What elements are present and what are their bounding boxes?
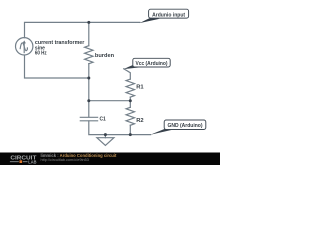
node dot source-burden bbox=[87, 77, 90, 80]
current source sine bbox=[20, 43, 27, 51]
wire source bottom to burden branch bbox=[25, 55, 89, 78]
resistor R2 bbox=[126, 107, 134, 125]
footer bar bbox=[0, 153, 220, 166]
resistor R1 bbox=[126, 79, 134, 97]
flag Ardunio input tail bbox=[139, 18, 159, 24]
svg-text:R1: R1 bbox=[136, 84, 144, 90]
wire mid horizontal node bbox=[89, 100, 131, 102]
footer logo LAB row bbox=[10, 159, 37, 165]
resistor burden bbox=[85, 46, 93, 64]
svg-text:http://circuitlab.com/c/e9tn53: http://circuitlab.com/c/e9tn53 bbox=[41, 158, 89, 162]
node dot burden bottom bbox=[87, 99, 90, 102]
flag GND (Arduino) bbox=[164, 120, 206, 130]
wire cap top stem bbox=[88, 101, 90, 117]
wire Vcc flag to R1 bbox=[124, 69, 131, 79]
ground bbox=[104, 135, 106, 138]
flag Ardunio input bbox=[149, 9, 189, 18]
flag Vcc (Arduino) tail bbox=[123, 65, 141, 69]
current source U1 circle bbox=[16, 38, 33, 55]
current source arrowhead bbox=[23, 40, 26, 43]
flag Vcc (Arduino) bbox=[133, 58, 170, 67]
wire burden top stem bbox=[88, 22, 90, 45]
wire R2 bottom stem bbox=[129, 125, 131, 134]
node dot divider mid bbox=[129, 99, 132, 102]
flag GND (Arduino) tail bbox=[150, 129, 172, 135]
wire top rail bbox=[25, 22, 140, 37]
wire cap bottom to ground rail bbox=[89, 121, 151, 135]
svg-text:GND (Arduino): GND (Arduino) bbox=[168, 123, 203, 129]
node dot ground bbox=[104, 133, 107, 136]
node dot R2 bottom bbox=[129, 133, 132, 136]
current source arrow shaft bbox=[23, 43, 25, 53]
wire R1 to node bbox=[129, 97, 131, 107]
svg-text:Ardunio input: Ardunio input bbox=[152, 12, 185, 18]
node dot burden top bbox=[87, 21, 90, 24]
svg-text:burden: burden bbox=[95, 53, 115, 59]
wire burden bottom stem bbox=[88, 64, 90, 101]
svg-text:LAB: LAB bbox=[28, 159, 37, 165]
svg-text:C1: C1 bbox=[100, 117, 106, 123]
capacitor C1 bbox=[80, 116, 97, 118]
svg-text:60 Hz: 60 Hz bbox=[35, 50, 47, 56]
svg-text:R2: R2 bbox=[136, 118, 143, 124]
svg-text:Vcc (Arduino): Vcc (Arduino) bbox=[136, 61, 168, 67]
